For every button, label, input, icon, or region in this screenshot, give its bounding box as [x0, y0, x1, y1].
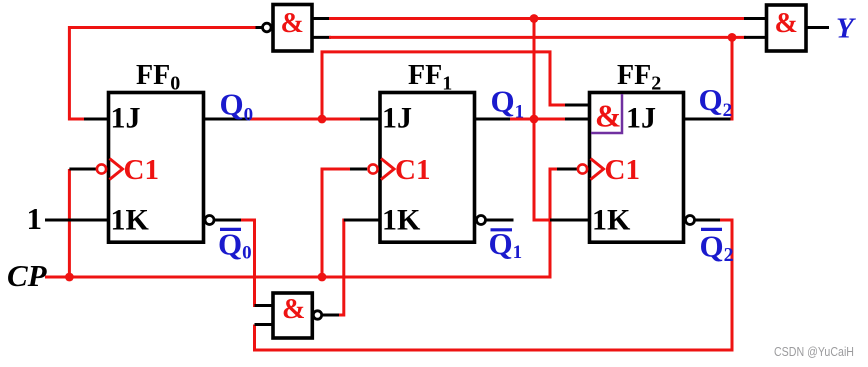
flip-flop FF1 box: [380, 93, 475, 243]
svg-text:CP: CP: [7, 258, 48, 293]
junction CP/FF0-C1: [65, 273, 74, 282]
svg-text:&: &: [775, 8, 798, 39]
FF1 C1 bubble: [368, 164, 377, 173]
node Qbar2 label: [700, 229, 734, 267]
svg-text:&: &: [281, 8, 304, 39]
junction line1/Q1: [530, 14, 539, 23]
wire Qbar2 to NAND G3 input 2: [255, 220, 733, 350]
wire Q1 down to FF2 1K: [534, 119, 590, 220]
wire CP to FF0 C1: [69, 169, 96, 277]
wire Q1 up to top bus line 1: [533, 19, 536, 120]
NAND gate G1 (top left, output faces left): [263, 5, 313, 52]
wire CP to FF1 C1: [322, 169, 367, 277]
svg-text:C1: C1: [395, 154, 430, 186]
FF2 C1 dynamic indicator: [591, 159, 604, 180]
junction Q1 node: [530, 115, 539, 124]
FF1 Qbar bubble: [477, 216, 486, 225]
FF1 C1 dynamic indicator: [381, 159, 394, 180]
flip-flop FF2 box: [590, 93, 684, 243]
wire CP line: [45, 169, 577, 277]
svg-text:C1: C1: [124, 154, 159, 186]
svg-text:1J: 1J: [382, 102, 412, 135]
wire top bus line 2 (Q2 to both AND gates): [312, 36, 767, 39]
wire Q0 from FF0 to FF1 1J: [204, 118, 381, 121]
FF0 C1 bubble: [97, 164, 106, 173]
junction line2/Q2: [728, 33, 737, 42]
svg-text:1J: 1J: [626, 102, 656, 135]
svg-text:1K: 1K: [592, 204, 631, 237]
wire Q2 up to top bus line 2: [684, 37, 734, 120]
FF2 C1 bubble: [578, 164, 587, 173]
FF2 Qbar bubble: [686, 216, 695, 225]
svg-text:&: &: [282, 294, 305, 325]
wire Qbar1 stub: [486, 219, 514, 222]
FF0 Qbar bubble: [205, 216, 214, 225]
svg-text:1K: 1K: [111, 204, 150, 237]
junction CP/FF1-C1: [318, 273, 327, 282]
wire NAND G3 output to FF1 1K: [322, 220, 381, 315]
flip-flop FF0 box: [109, 93, 204, 243]
svg-text:1J: 1J: [111, 102, 141, 135]
wire Q1 from FF1 to FF2 AND input 2: [475, 118, 590, 121]
wire NAND G1 output to FF0 1J (red): [69, 28, 262, 120]
svg-text:CSDN @YuCaiH: CSDN @YuCaiH: [774, 345, 854, 359]
svg-text:&: &: [595, 99, 621, 134]
svg-text:C1: C1: [605, 154, 640, 186]
wire Y output: [806, 26, 829, 29]
NAND gate G3 (bottom middle): [273, 293, 322, 338]
wire input 1 to FF0 1K: [45, 219, 109, 222]
node Qbar0 label: [218, 227, 252, 264]
svg-text:1K: 1K: [382, 204, 421, 237]
svg-text:1: 1: [27, 201, 43, 236]
FF0 C1 dynamic indicator: [110, 159, 123, 180]
AND gate G2 (top right): [767, 5, 807, 51]
junction Q0 node: [318, 115, 327, 124]
wire Q0 to FF2 AND input 1: [322, 52, 590, 119]
FF2 embedded AND partition (purple): [591, 94, 622, 133]
svg-text:Y: Y: [836, 13, 856, 45]
wire top bus line 1 (Q1 to both AND gates): [312, 17, 767, 20]
wire Qbar0 to NAND G3 input 1: [214, 220, 274, 306]
node Qbar1 label: [489, 226, 523, 263]
